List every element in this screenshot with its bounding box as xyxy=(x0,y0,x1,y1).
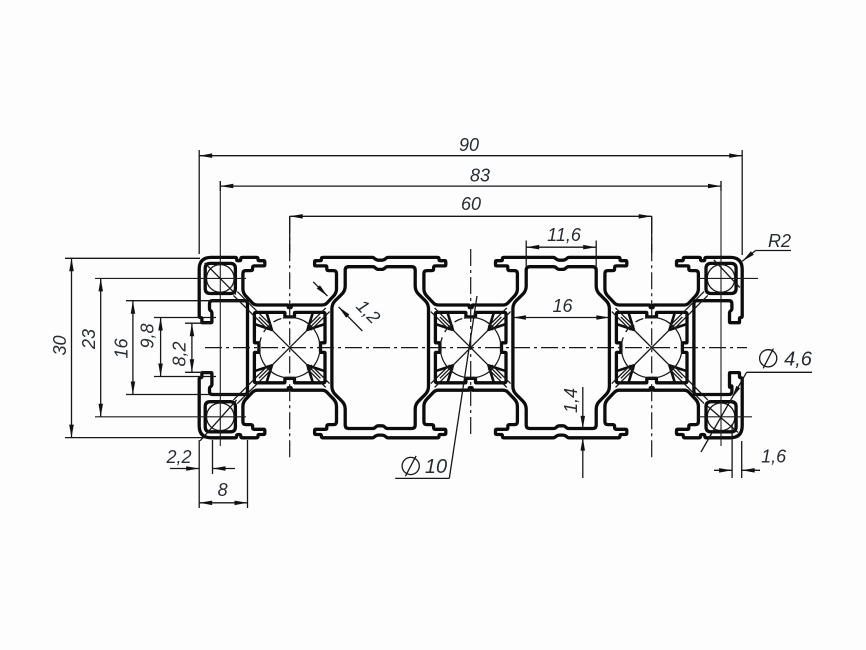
dimension 23 xyxy=(100,278,102,416)
fillet lines core2 to tower2 top xyxy=(488,308,507,327)
dimension 30 xyxy=(65,257,200,259)
fillet lines core1 to tower1 bottom xyxy=(307,369,326,388)
dimension 16 horizontal xyxy=(513,317,610,319)
fillet lines core3 to tower2 bottom xyxy=(616,369,635,388)
top-right boss horizontal centerline xyxy=(698,277,758,279)
core circle d10 #2 (3/4 thin thread circle) xyxy=(440,317,501,378)
svg-text:60: 60 xyxy=(461,194,481,214)
fillet lines core1 to bottom-left boss xyxy=(237,369,271,403)
core 3 corner thread ribs xyxy=(616,312,634,329)
core 3 vertical centerline xyxy=(651,216,653,458)
right bosses vertical centerline xyxy=(720,181,722,446)
dimension 83 xyxy=(219,181,221,191)
core 1 X diagonals xyxy=(259,317,321,378)
boss circle d4.6 bottom-left xyxy=(207,403,235,431)
svg-text:1,6: 1,6 xyxy=(761,447,787,467)
fillet lines core3 to bottom-right boss xyxy=(670,369,704,403)
svg-text:1,2: 1,2 xyxy=(352,296,384,328)
fillet lines core1 to tower1 top xyxy=(307,308,326,327)
dimension 90 xyxy=(198,150,200,254)
fillet lines core3 to tower2 top xyxy=(616,308,635,327)
leader R2 xyxy=(756,250,791,252)
boss circle d4.6 top-left xyxy=(207,265,235,293)
top-left boss horizontal centerline xyxy=(95,277,246,279)
left bosses vertical centerline xyxy=(219,181,221,446)
core 2 corner thread ribs xyxy=(435,312,453,329)
screw boss hole top-left xyxy=(205,263,235,293)
svg-text:8: 8 xyxy=(218,480,228,500)
screw boss hole top-right xyxy=(706,263,736,293)
screw boss hole bottom-right xyxy=(706,402,736,432)
svg-text:16: 16 xyxy=(552,296,573,316)
dimension 60 xyxy=(290,215,652,217)
dimension 1,2 wall thickness xyxy=(313,282,327,296)
fillet lines core3 to top-right boss xyxy=(670,292,704,326)
core 1 vertical centerline xyxy=(289,216,291,458)
fillet lines core1 to top-left boss xyxy=(237,292,271,326)
box tower cavity at x=30 xyxy=(332,267,429,429)
svg-text:R2: R2 xyxy=(768,231,791,251)
leader diameter 10 xyxy=(395,477,449,479)
core circle d10 #1 (3/4 thin thread circle) xyxy=(259,317,320,378)
profile outer contour (90x30 extrusion) xyxy=(199,257,742,437)
boss circle d4.6 bottom-right xyxy=(707,403,735,431)
dimension 8 xyxy=(247,440,249,508)
boss circle d4.6 top-right xyxy=(707,265,735,293)
dimension 11,6 xyxy=(525,241,527,267)
svg-text:23: 23 xyxy=(79,329,99,350)
screw boss hole bottom-left xyxy=(205,402,235,432)
dimension 16 vertical xyxy=(126,300,250,302)
svg-text:16: 16 xyxy=(112,338,132,359)
core cavity 1 at x=15 xyxy=(254,312,325,382)
bottom-left boss horizontal centerline xyxy=(95,416,246,418)
svg-text:2,2: 2,2 xyxy=(165,447,191,467)
svg-text:9,8: 9,8 xyxy=(138,323,158,348)
svg-text:10: 10 xyxy=(425,456,447,478)
svg-text:83: 83 xyxy=(470,166,490,186)
boss diagonal bottom-right xyxy=(707,406,738,433)
dimension 8,2 xyxy=(185,322,213,324)
leader diameter 4,6 xyxy=(747,371,812,373)
core circle d10 #3 (3/4 thin thread circle) xyxy=(621,317,682,378)
dimension 9,8 xyxy=(154,317,216,319)
fillet lines core2 to tower2 bottom xyxy=(488,369,507,388)
boss diagonal top-right xyxy=(714,260,740,288)
core cavity 2 at x=45 xyxy=(435,312,506,382)
svg-text:4,6: 4,6 xyxy=(784,349,813,371)
boss diagonal bottom-left xyxy=(200,400,237,441)
horizontal mid centerline xyxy=(205,347,747,349)
core 1 corner thread ribs xyxy=(254,312,272,329)
dimension 2,2 xyxy=(198,440,200,474)
svg-text:11,6: 11,6 xyxy=(547,225,582,245)
svg-text:8,2: 8,2 xyxy=(170,341,190,366)
svg-text:30: 30 xyxy=(50,335,70,355)
core 2 X diagonals xyxy=(440,317,502,378)
fillet lines core2 to tower1 top xyxy=(435,308,454,327)
dimension 1,4 xyxy=(582,387,584,429)
bottom-right boss horizontal centerline xyxy=(698,416,752,418)
core cavity 3 at x=75 xyxy=(616,312,687,382)
core 2 vertical centerline xyxy=(470,249,472,438)
svg-text:1,4: 1,4 xyxy=(561,388,581,413)
svg-text:90: 90 xyxy=(459,135,479,155)
boss diagonal top-left xyxy=(205,263,236,295)
box tower cavity at x=60 xyxy=(513,267,610,429)
core 3 X diagonals xyxy=(621,317,683,378)
fillet lines core2 to tower1 bottom xyxy=(435,369,454,388)
dimension 1,6 xyxy=(731,424,733,478)
